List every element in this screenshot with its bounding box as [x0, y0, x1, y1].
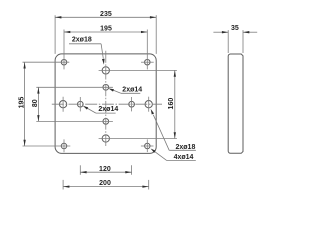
svg-text:4xø14: 4xø14	[174, 154, 194, 161]
svg-text:235: 235	[100, 11, 112, 18]
svg-text:195: 195	[100, 25, 112, 32]
svg-text:80: 80	[32, 99, 39, 107]
svg-text:2xø18: 2xø18	[72, 37, 92, 44]
svg-text:35: 35	[231, 25, 239, 32]
svg-text:120: 120	[99, 166, 111, 173]
svg-text:2xø14: 2xø14	[98, 106, 118, 113]
svg-text:160: 160	[168, 98, 175, 110]
svg-text:2xø18: 2xø18	[176, 144, 196, 151]
svg-text:195: 195	[18, 97, 25, 109]
svg-text:200: 200	[99, 180, 111, 187]
svg-text:2xø14: 2xø14	[122, 87, 142, 94]
